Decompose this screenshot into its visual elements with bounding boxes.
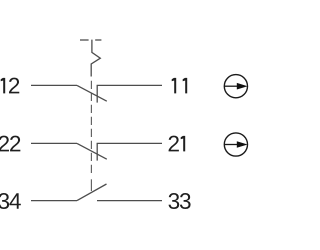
contact NO 34-33 moving blade (77, 184, 107, 201)
wire lead 11 (97, 84, 162, 86)
indicator circle row 2 (224, 133, 247, 156)
terminal label 12 digit 1 (1, 78, 6, 94)
contact NC 22-21 fixed bar (96, 143, 98, 160)
terminal label 22 digit 2 first (0, 136, 9, 152)
terminal label 33 digit 3 second (180, 193, 191, 209)
indicator arrow row 2 head (237, 141, 248, 148)
actuator dashed link line (90, 81, 92, 173)
indicator arrow row 2 shaft (224, 144, 239, 146)
terminal label 34 digit 4 (9, 193, 20, 209)
terminal label 21 digit 1 (181, 136, 186, 152)
terminal label 12 digit 2 (9, 78, 19, 94)
terminal label 11 digit 1 first (172, 78, 177, 94)
spring zigzag actuator (91, 40, 100, 77)
terminal label 33 digit 3 first (169, 193, 180, 209)
contact NC 12-11 fixed bar (96, 85, 98, 102)
contact NC 22-21 moving blade (77, 143, 107, 159)
indicator arrow row 1 head (237, 83, 248, 90)
terminal label 34 digit 3 (0, 193, 9, 209)
actuator tee right dash (95, 39, 101, 41)
indicator circle row 1 (224, 75, 247, 98)
terminal label 11 digit 1 second (183, 78, 188, 94)
wire lead 34 (31, 200, 77, 202)
actuator link final dash (90, 179, 92, 191)
wire lead 33 (97, 200, 162, 202)
wire lead 12 (31, 84, 77, 86)
wire lead 22 (31, 142, 77, 144)
terminal label 21 digit 2 (169, 136, 179, 152)
terminal label 22 digit 2 second (10, 136, 20, 152)
actuator tee left dash (80, 39, 89, 41)
contact NC 12-11 moving blade (77, 85, 107, 101)
wire lead 21 (97, 142, 162, 144)
indicator arrow row 1 shaft (224, 85, 239, 87)
